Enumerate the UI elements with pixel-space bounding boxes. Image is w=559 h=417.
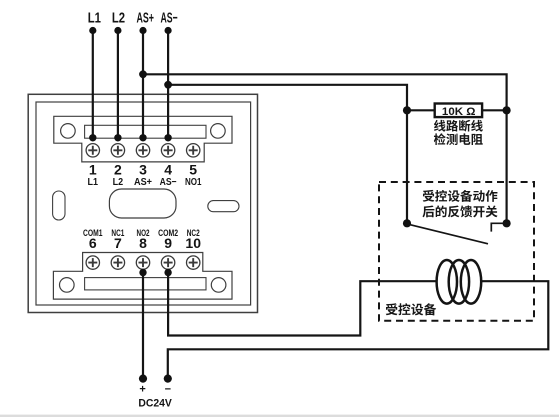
svg-text:NO1: NO1 bbox=[185, 177, 202, 188]
screw terminal 9 bbox=[161, 256, 174, 269]
coil of controlled device (load) bbox=[437, 260, 482, 304]
top wire slot bbox=[85, 125, 206, 138]
terminal 1 wire dot bbox=[89, 134, 96, 141]
screw terminal 7 bbox=[111, 256, 124, 269]
node AS+ stub bbox=[139, 27, 146, 34]
bottom wire slot bbox=[85, 278, 206, 290]
module outer case bbox=[28, 94, 257, 312]
screw terminal 4 bbox=[161, 144, 174, 157]
terminal 9 wire dot bbox=[164, 269, 171, 276]
switch blade bbox=[409, 224, 489, 244]
svg-text:10: 10 bbox=[185, 235, 201, 251]
screw terminal 8 bbox=[136, 256, 149, 269]
faint scan band at bottom edge bbox=[0, 415, 559, 417]
svg-text:9: 9 bbox=[164, 235, 172, 251]
svg-text:DC24V: DC24V bbox=[138, 398, 172, 410]
terminal 3 wire dot bbox=[139, 134, 146, 141]
DC24V plus terminal bbox=[139, 375, 147, 383]
svg-text:8: 8 bbox=[139, 235, 147, 251]
switch pole (left contact) bbox=[403, 219, 411, 227]
top terminal carrier plate bbox=[54, 116, 232, 162]
svg-text:+: + bbox=[139, 384, 145, 396]
node AS- stub bbox=[165, 27, 172, 34]
right oval cutout bbox=[208, 201, 239, 212]
wire terminal 9 to coil left bbox=[168, 273, 437, 336]
wire AS- to terminal 4 bbox=[167, 31, 169, 138]
svg-text:10K Ω: 10K Ω bbox=[442, 106, 476, 118]
resistor R 10K body bbox=[435, 104, 482, 118]
wire terminal 8 to DC24V plus bbox=[142, 273, 144, 379]
svg-text:AS+: AS+ bbox=[136, 11, 154, 27]
svg-text:L2: L2 bbox=[113, 177, 124, 188]
screw terminal 6 bbox=[86, 256, 99, 269]
screw terminal 3 bbox=[136, 144, 149, 157]
svg-text:1: 1 bbox=[89, 162, 97, 178]
screw terminal 1 bbox=[86, 144, 99, 157]
wire resistor right lead bbox=[482, 109, 507, 111]
svg-text:3: 3 bbox=[139, 162, 147, 178]
svg-text:L1: L1 bbox=[88, 177, 99, 188]
svg-text:AS−: AS− bbox=[160, 177, 177, 188]
label feedback switch line1 受控设备动作 bbox=[423, 190, 498, 202]
wire AS+ to terminal 3 bbox=[142, 31, 144, 138]
wire AS- branch to left vertical / switch left bbox=[168, 85, 407, 224]
module inner panel bbox=[36, 102, 251, 305]
screw terminal 10 bbox=[187, 256, 200, 269]
junction AS+ branch bbox=[139, 70, 147, 78]
label line-break detection resistor line2 检测电阻 bbox=[434, 133, 483, 145]
wire resistor left lead bbox=[407, 109, 435, 111]
top plate mounting hole right bbox=[211, 124, 226, 139]
label line-break detection resistor line1 线路断线 bbox=[434, 120, 483, 132]
wire coil right to DC24V minus bbox=[168, 281, 549, 378]
node L2 stub bbox=[114, 27, 121, 34]
svg-text:−: − bbox=[165, 384, 171, 396]
wire AS+ branch to right vertical / switch right bbox=[143, 74, 507, 223]
svg-text:2: 2 bbox=[114, 162, 122, 178]
dashed box: feedback switch enclosure bbox=[379, 182, 534, 321]
switch fixed contact hook bbox=[491, 223, 506, 231]
wire L2 to terminal 2 bbox=[117, 31, 119, 138]
svg-text:L2: L2 bbox=[112, 11, 125, 27]
svg-text:4: 4 bbox=[164, 162, 172, 178]
wire L1 to terminal 1 bbox=[92, 31, 94, 138]
svg-text:7: 7 bbox=[114, 235, 122, 251]
bottom plate mounting hole left bbox=[60, 278, 75, 293]
svg-text:AS−: AS− bbox=[161, 11, 178, 27]
label feedback switch line2 后的反馈开关 bbox=[422, 205, 497, 217]
svg-text:6: 6 bbox=[89, 235, 97, 251]
left oval cutout bbox=[53, 191, 65, 220]
svg-text:AS+: AS+ bbox=[134, 177, 152, 188]
bottom terminal carrier plate bbox=[53, 253, 232, 300]
bottom plate mounting hole right bbox=[211, 278, 226, 293]
svg-text:5: 5 bbox=[189, 162, 197, 178]
svg-text:L1: L1 bbox=[88, 11, 101, 27]
node L1 stub bbox=[89, 27, 96, 34]
terminal 4 wire dot bbox=[164, 134, 171, 141]
junction resistor left bbox=[403, 106, 411, 114]
terminal 2 wire dot bbox=[114, 134, 121, 141]
switch right contact bbox=[503, 219, 511, 227]
center rounded window bbox=[109, 189, 176, 218]
top plate mounting hole left bbox=[61, 124, 76, 139]
label controlled device 受控设备 bbox=[386, 303, 437, 315]
DC24V minus terminal bbox=[164, 375, 172, 383]
junction resistor right bbox=[503, 106, 511, 114]
screw terminal 5 bbox=[187, 144, 200, 157]
screw terminal 2 bbox=[111, 144, 124, 157]
junction AS- branch bbox=[164, 81, 172, 89]
terminal 8 wire dot bbox=[139, 269, 146, 276]
